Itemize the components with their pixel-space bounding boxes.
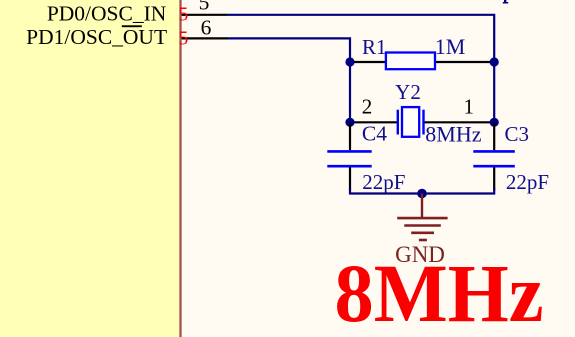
svg-text:C4: C4 — [362, 122, 387, 146]
pin number 1 (Y2 right) — [464, 95, 475, 119]
junction node B (R1 right) — [490, 57, 499, 66]
svg-text:1: 1 — [464, 95, 475, 119]
svg-text:22pF: 22pF — [506, 170, 549, 194]
svg-text:PD1/OSC_OUT: PD1/OSC_OUT — [26, 25, 167, 49]
resistor R1 body — [386, 53, 435, 70]
svg-text:5: 5 — [179, 29, 189, 50]
junction Y2 left node — [345, 118, 354, 127]
pin name PD1/OSC_OUT — [26, 25, 167, 49]
value 22pF (C3) — [506, 170, 549, 194]
crystal Y2 body — [402, 107, 419, 137]
svg-text:5: 5 — [179, 5, 189, 26]
annotation 8MHz (large) — [335, 247, 544, 337]
crystal Y2 pins — [350, 121, 494, 123]
svg-text:C3: C3 — [505, 122, 530, 146]
svg-text:2: 2 — [362, 95, 373, 119]
junction node A (R1 left) — [345, 57, 354, 66]
designator Y2 — [395, 80, 421, 104]
svg-text:8MHz: 8MHz — [425, 121, 481, 146]
value 8MHz (Y2) — [425, 121, 481, 146]
crystal Y2 left electrode — [397, 110, 399, 135]
red marker at pin 5 — [179, 5, 189, 26]
pin 5 (OSC_IN) — [182, 14, 227, 16]
svg-text:22pF: 22pF — [362, 170, 405, 194]
svg-text:Y2: Y2 — [395, 80, 421, 104]
wire node A vertical (R1 to Y2 left) — [349, 62, 351, 122]
pin number 6 — [201, 16, 212, 40]
capacitor C4 top pin — [349, 122, 351, 150]
capacitor C3 bottom pin — [493, 167, 495, 190]
svg-text:R1: R1 — [362, 35, 387, 59]
pin name PD0/OSC_IN — [47, 1, 167, 25]
crystal Y2 right electrode — [422, 110, 424, 135]
net label GND — [395, 242, 445, 267]
junction GND node — [417, 189, 427, 199]
capacitor C4 plates — [327, 151, 371, 166]
svg-text:8MHz: 8MHz — [335, 247, 544, 337]
pin 6 (OSC_OUT) — [182, 37, 228, 39]
red marker at pin 6 — [179, 29, 189, 50]
ground symbol — [397, 194, 447, 241]
pin number 2 (Y2 left) — [362, 95, 373, 119]
svg-text:6: 6 — [201, 16, 212, 40]
wire pin6 to node A (left) — [228, 38, 350, 62]
resistor R1 pins — [350, 61, 494, 63]
value 1M — [435, 34, 466, 59]
designator R1 — [362, 35, 387, 59]
designator C3 — [505, 122, 530, 146]
svg-text:5: 5 — [199, 0, 210, 15]
wire pin5 to node B (top) — [227, 15, 494, 62]
junction Y2 right node — [490, 118, 499, 127]
capacitor C4 bottom pin — [349, 167, 351, 190]
component body U1 (MCU, partial) — [0, 0, 181, 337]
wire node B vertical (R1 to Y2 right) — [493, 62, 495, 122]
svg-text:1M: 1M — [435, 34, 466, 59]
capacitor C3 top pin — [493, 122, 495, 150]
pin number 5 — [199, 0, 210, 15]
wire bottom (C4-GND-C3) — [350, 188, 494, 194]
svg-text:PD0/OSC_IN: PD0/OSC_IN — [47, 1, 167, 25]
text fragment top right (clipped) — [503, 0, 508, 4]
capacitor C3 plates — [473, 151, 515, 166]
value 22pF (C4) — [362, 170, 405, 194]
designator C4 — [362, 122, 387, 146]
